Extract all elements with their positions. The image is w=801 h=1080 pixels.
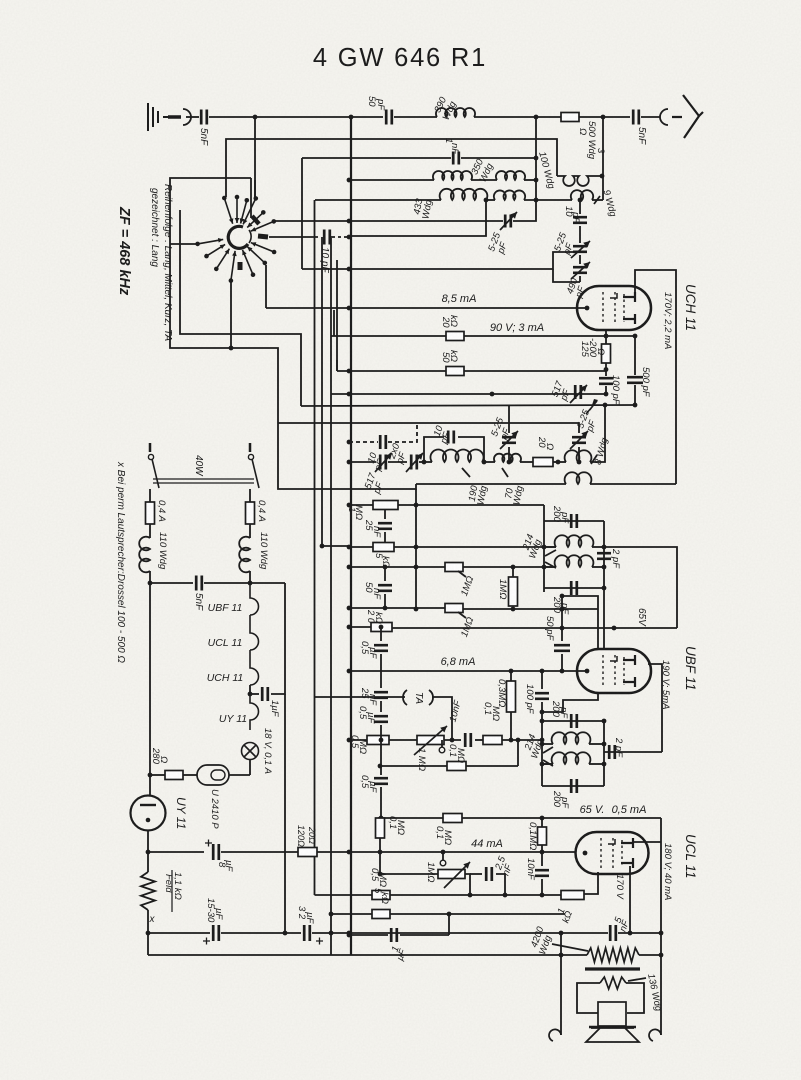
resistor 0,5M ucl <box>372 891 390 900</box>
leader 8wdg <box>591 455 597 464</box>
capacitor 2x0 gang <box>411 455 417 470</box>
wire switch frame left <box>170 178 278 423</box>
inductor antenna coupling 500Wdg <box>557 176 602 186</box>
wire row 914 b <box>390 913 565 915</box>
wire row 914 <box>331 913 372 915</box>
node 536-158 <box>534 156 539 161</box>
capacitor 10nF coupling <box>465 733 471 747</box>
wire row 567 <box>349 566 445 568</box>
wire row 371 c <box>464 370 606 372</box>
wire row 740 e <box>502 739 542 741</box>
tube UBF11 <box>577 649 651 693</box>
wire t1 coils left <box>544 546 556 548</box>
resistor 125-200 <box>602 344 611 363</box>
wire switch 1 to fuse <box>149 489 151 502</box>
resistor 0,1M cath <box>376 818 385 838</box>
node 604-764 <box>602 762 607 767</box>
node bus 462 <box>347 460 352 465</box>
node 509-462 <box>507 460 512 465</box>
node 542-744 <box>540 742 545 747</box>
capacitor 2pF t1 <box>597 553 611 559</box>
trimmer arrow pad2 <box>570 431 588 449</box>
trimmer arrow gang1 <box>375 453 392 472</box>
plus 32 <box>316 938 323 945</box>
resistor 20k b <box>371 623 392 632</box>
node 385-608 <box>383 606 388 611</box>
heater UY11 loop <box>250 694 259 730</box>
wire x542 low2 <box>541 879 543 895</box>
wire switch to frame <box>250 178 252 218</box>
capacitor 1uF heater <box>262 687 268 701</box>
wire spoke up x255 <box>254 180 256 198</box>
resistor 20 Ohm <box>533 458 553 467</box>
leader 214c <box>543 747 553 753</box>
wire row 775 b <box>183 774 197 776</box>
wire row 933 <box>148 932 210 934</box>
wire triode plate down <box>629 895 631 932</box>
node 542-852 <box>540 850 545 855</box>
ground symbol <box>148 103 170 131</box>
pot arrow <box>414 726 447 755</box>
wire row 462 up <box>590 405 605 462</box>
node 562-596 <box>560 594 565 599</box>
capacitor 2,5nF <box>486 867 492 881</box>
speaker magnet <box>598 1002 626 1026</box>
wire row 158 b <box>461 157 536 159</box>
capacitor 5-25pF b <box>573 246 587 252</box>
wire row 487 right <box>590 483 676 485</box>
node bus 627 <box>347 625 352 630</box>
node 542-671 <box>540 669 545 674</box>
node 416-547 <box>414 545 419 550</box>
wire spoke drop 266 <box>265 265 267 308</box>
wire row 935 <box>349 934 388 936</box>
wire row 158 <box>302 157 451 159</box>
node 544-547 <box>542 545 547 550</box>
node bus 505 <box>347 503 352 508</box>
node 322-546 <box>320 544 325 549</box>
band switch contact spokes <box>224 198 232 224</box>
wire switch 2 to fuse <box>249 489 251 502</box>
potentiometer 1M <box>417 736 444 745</box>
node 416-505 <box>414 503 419 508</box>
inductor 9 Wdg <box>571 190 593 200</box>
wire heater return <box>284 694 286 933</box>
node bus 608 <box>347 606 352 611</box>
wire row 505 b <box>398 504 544 506</box>
wire t2 sec left <box>542 763 553 765</box>
mains terminal 2 <box>249 443 252 452</box>
heater chain mid <box>249 685 251 694</box>
potentiometer 1M bass <box>438 870 465 879</box>
node 424-462 <box>422 460 427 465</box>
node 416-567 <box>414 565 419 570</box>
wire UBF plate <box>648 664 662 752</box>
node 604-547 <box>602 545 607 550</box>
wire spoke left link <box>170 243 198 245</box>
black arrow pad2 <box>590 399 598 411</box>
wire spoke up x226 <box>226 139 557 197</box>
wire x635 <box>634 336 636 375</box>
node 604-588 <box>602 586 607 591</box>
band switch rotor circle <box>228 226 248 248</box>
resistor 0,1M b <box>447 762 466 771</box>
node 606-394 <box>604 392 609 397</box>
wire row 200 c <box>486 199 495 201</box>
wire stub 322 <box>322 545 349 547</box>
resistor 1M vertical <box>509 577 518 606</box>
antenna jack plug <box>168 115 181 119</box>
capacitor 5nF antenna <box>633 110 639 125</box>
node 513-609 <box>511 607 516 612</box>
wire row 487 left <box>278 423 416 489</box>
node 380-766 <box>378 764 383 769</box>
node frame 231 <box>229 346 234 351</box>
wire 269 to 580 bottom <box>553 269 580 282</box>
wire vertical x536 <box>535 117 537 200</box>
wire row 955 b <box>639 954 661 956</box>
wire row 180 end <box>524 179 536 181</box>
resistor 1M a <box>445 563 463 572</box>
node bus 933 <box>347 931 352 936</box>
wire vertical x255 <box>254 117 256 199</box>
wire feld bottom <box>147 910 149 955</box>
wire row 200 <box>315 199 441 201</box>
node 635-336 <box>633 334 638 339</box>
wire x606 low <box>605 386 607 394</box>
node 449-914 <box>447 912 452 917</box>
capacitor 8uF <box>213 844 219 860</box>
node 561-955 <box>559 953 564 958</box>
capacitor 500pF <box>627 377 643 383</box>
wire L390 to R500 <box>474 116 561 118</box>
wire lamp down <box>249 759 251 775</box>
wire vertical x314 <box>314 200 316 895</box>
speaker loop right <box>626 983 644 1013</box>
wire triode plate arm <box>633 841 661 843</box>
node 542-764 <box>540 762 545 767</box>
leader 70 <box>502 468 508 477</box>
wire 1uF row <box>250 693 259 695</box>
resistor 1M avc <box>373 501 398 510</box>
wire feld top <box>147 852 149 872</box>
capacitor 15-30uF <box>213 925 219 941</box>
resistor 0,3M <box>507 681 516 712</box>
wire row 547 <box>349 546 373 548</box>
node 380-874 <box>378 872 383 877</box>
heater chain wire <box>250 583 259 685</box>
wire row 236 right <box>349 200 486 236</box>
node 542-740 <box>540 738 545 743</box>
node 562-628 <box>560 626 565 631</box>
node 492-394 <box>490 392 495 397</box>
inductor 110Wdg left <box>139 537 150 573</box>
transformer2 bottom <box>542 785 604 787</box>
node bus 935 <box>347 933 352 938</box>
node 148-775 <box>148 773 153 778</box>
fuse 0,4A right <box>246 502 255 524</box>
wire vertical x337 <box>336 260 338 371</box>
wire row 627 <box>349 626 371 628</box>
node bus 371 <box>347 369 352 374</box>
inductor 214Wdg t2 sec <box>552 752 591 764</box>
barretter U2410P <box>197 765 229 785</box>
wire row 200 d <box>524 199 572 201</box>
wire row 740 <box>349 739 367 741</box>
wire row 721 <box>542 720 604 722</box>
capacitor 0,5uF c <box>374 778 388 784</box>
wire choke R down <box>249 571 251 583</box>
capacitor 50pF <box>554 645 570 651</box>
wire vertical x302 <box>301 158 303 269</box>
wire x606 mid <box>605 363 607 376</box>
wire row 671 <box>349 670 587 672</box>
hook right <box>649 1029 661 1041</box>
wire row 547 right <box>604 547 677 628</box>
node 385-567 <box>383 565 388 570</box>
wire 100pF col b <box>541 702 543 786</box>
wire row 462 <box>349 461 376 463</box>
trimmer arrow gang2 <box>406 453 423 472</box>
node 558-462 <box>556 460 561 465</box>
capacitor 200pF t1 bot <box>571 581 577 595</box>
wire rotor row 236 <box>269 236 318 238</box>
wire row 583 <box>150 582 193 584</box>
node bus 567 <box>347 565 352 570</box>
node 580-200 <box>578 198 583 203</box>
transformer1 top <box>544 520 604 522</box>
wire x542 low <box>541 852 543 866</box>
band switch rotor bar right <box>258 236 268 237</box>
resistor 1M b <box>445 604 463 613</box>
capacitor 0,5uF a <box>374 645 388 651</box>
capacitor 10pF bridge <box>448 431 454 444</box>
wire 25nF col <box>384 509 386 519</box>
node 630-933 <box>628 931 633 936</box>
wire row 567 b <box>463 566 556 568</box>
capacitor 5nF output <box>610 925 616 941</box>
wire 1Mv top <box>512 567 514 577</box>
wire dashed gang row <box>349 441 378 443</box>
wire 449 down <box>448 914 450 935</box>
wire to L390 <box>394 116 437 118</box>
wire t1 coils right2 <box>592 566 604 568</box>
tube UY11 <box>131 796 166 831</box>
capacitor 200pF t1 top <box>571 514 577 528</box>
leader 214b <box>545 562 556 568</box>
wire row 627 b <box>392 627 677 629</box>
node 544-567 <box>542 565 547 570</box>
inductor 8 Wdg <box>565 450 592 462</box>
wire col bottom <box>579 276 581 282</box>
wire fuse to choke R <box>249 524 251 538</box>
transformer core bar <box>585 967 640 970</box>
wire 1uF row b <box>271 583 285 694</box>
node 661-955 <box>659 953 664 958</box>
plus 8uF <box>205 840 212 847</box>
node 484-462 <box>482 460 487 465</box>
wire 50nF col <box>384 567 386 581</box>
fuse 0,4A left <box>146 502 155 524</box>
wire diode load box <box>562 596 598 649</box>
wire UBF diode to t2 <box>542 692 598 712</box>
wire fuse to choke L <box>149 524 151 538</box>
inductor 70 Wdg <box>494 454 521 462</box>
capacitor 1nF <box>453 152 459 165</box>
node bus 740 <box>347 738 352 743</box>
wire row 955 <box>148 954 587 956</box>
resistor 1k ucl <box>561 891 584 900</box>
wire 380 to 874 <box>379 852 381 874</box>
capacitor 25nF b <box>374 692 388 698</box>
wire row 200 end <box>592 199 603 201</box>
pot2 tap stub <box>442 852 444 860</box>
inductor 433b <box>494 190 525 200</box>
wire padder2 b <box>578 447 580 462</box>
wire col380 mid3 <box>380 725 382 740</box>
capacitor 200pF t2 top <box>571 714 577 728</box>
wire row 547 b <box>394 546 556 548</box>
wire 2,5nF row <box>470 873 482 875</box>
resistor 500 Wdg ant <box>561 113 579 122</box>
node bus 394 <box>347 392 352 397</box>
node 511-740 <box>509 738 514 743</box>
wire 50pF col b <box>561 654 563 671</box>
node 150-583 <box>148 581 153 586</box>
wire 2,5nF row b <box>496 874 505 895</box>
wire row 608 <box>349 607 445 609</box>
wire row 462 d <box>482 461 495 463</box>
wire spoke row 308 start <box>266 307 349 309</box>
wire col380 low2 <box>380 787 382 818</box>
wire row 462 b <box>388 461 407 463</box>
node heater 1uF <box>248 692 253 697</box>
band switch rotor bar lower <box>238 262 243 270</box>
node 511-671 <box>509 669 514 674</box>
wire col380 top <box>380 627 382 641</box>
capacitor 517pF gang <box>380 455 386 470</box>
wire 490 join <box>565 251 580 253</box>
trimmer arrow 517 <box>570 385 587 403</box>
leader 9wdg <box>594 196 600 204</box>
capacitor 32uF <box>304 925 310 941</box>
wire row 895 <box>315 894 373 896</box>
inductor 214Wdg t1 sec <box>555 555 594 567</box>
node bus 442 <box>347 440 352 445</box>
resistor 280 Ohm <box>165 771 183 780</box>
dial lamp <box>242 743 259 760</box>
wire t2 coils right2 <box>589 763 604 765</box>
trimmer arrow a <box>500 212 517 230</box>
wire col380 low <box>380 740 382 775</box>
node 604-744 <box>602 742 607 747</box>
wire bridge left <box>424 437 444 462</box>
wire 50pF col <box>561 596 563 641</box>
wire row 740 b <box>389 739 417 741</box>
leader 214d <box>543 760 553 766</box>
inductor 214Wdg t1 pri <box>555 535 594 547</box>
node 606-369 <box>604 367 609 372</box>
wire vertical x334 up <box>333 310 335 336</box>
pot2 arrow <box>444 862 470 888</box>
node 381-627 <box>379 625 384 630</box>
wire row 818 b <box>462 817 661 819</box>
mains switch 2 <box>248 454 253 459</box>
inductor 110Wdg right <box>239 537 250 573</box>
node 605-405 <box>603 403 608 408</box>
wire row 462 e <box>520 461 533 463</box>
wire padder1 b <box>508 447 510 462</box>
node 561-933 <box>559 931 564 936</box>
node bus 308 <box>347 306 352 311</box>
wire spoke down x231 <box>230 280 232 348</box>
inductor 190 Wdg <box>430 450 483 462</box>
capacitor 0,5uF b <box>374 716 388 722</box>
leader 136 <box>628 978 646 981</box>
node bus 547 <box>347 545 352 550</box>
transformer1 frame <box>543 505 545 592</box>
node 486-200 <box>484 198 489 203</box>
wire TA right <box>432 697 452 740</box>
wire t2 coils right <box>589 743 604 745</box>
resistor 0,1M grid <box>538 827 547 845</box>
capacitor 2pF t2 <box>609 745 615 759</box>
wire vertical x331 <box>330 236 332 955</box>
wire top line to bus <box>209 116 383 118</box>
resistor 0,1M coupling <box>483 736 502 745</box>
wire row 336 <box>331 335 446 337</box>
wire col380 mid2 <box>380 701 382 712</box>
node 381-818 <box>379 816 384 821</box>
wire row 583 b <box>204 582 285 584</box>
tube UCL11 <box>576 832 649 874</box>
wire row 740 d <box>475 739 483 741</box>
wire column x580 <box>579 200 581 214</box>
node top bus <box>349 115 354 120</box>
wire padder1 <box>508 405 510 433</box>
capacitor 25nF avc <box>378 523 392 529</box>
node top-1 <box>253 115 258 120</box>
node 452-740 <box>450 738 455 743</box>
node 542-895 <box>540 893 545 898</box>
capacitor 5nF input <box>201 110 207 125</box>
pot tap circle <box>439 747 445 753</box>
field coil Feld 1,1k <box>141 872 155 910</box>
node top-3 <box>601 115 606 120</box>
node 381-740 <box>379 738 384 743</box>
wire 03M col <box>510 671 512 681</box>
node 562-671 <box>560 669 565 674</box>
wire transformer1 to diode <box>603 588 605 649</box>
wire row 462 c <box>419 461 432 463</box>
trimmer arrow pad1 <box>500 431 518 449</box>
node bus 671 <box>347 669 352 674</box>
wire row 766 <box>380 765 518 767</box>
wire t2 coils left <box>542 743 553 745</box>
wire t1 coils right <box>592 546 604 548</box>
wire left vertical power <box>149 583 151 796</box>
leader 214a <box>545 550 556 556</box>
wire 380 to 852 <box>379 838 381 852</box>
wire x606 tube down <box>605 330 607 344</box>
wire row 405 <box>301 405 635 406</box>
node 542-818 <box>540 816 545 821</box>
bus main vertical x351 <box>350 117 352 955</box>
capacitor 50nF <box>378 585 392 591</box>
inductor 8 Wdg sec <box>565 472 592 484</box>
capacitor 10pF gang <box>380 435 386 449</box>
resistor 5k ucl <box>372 910 390 919</box>
